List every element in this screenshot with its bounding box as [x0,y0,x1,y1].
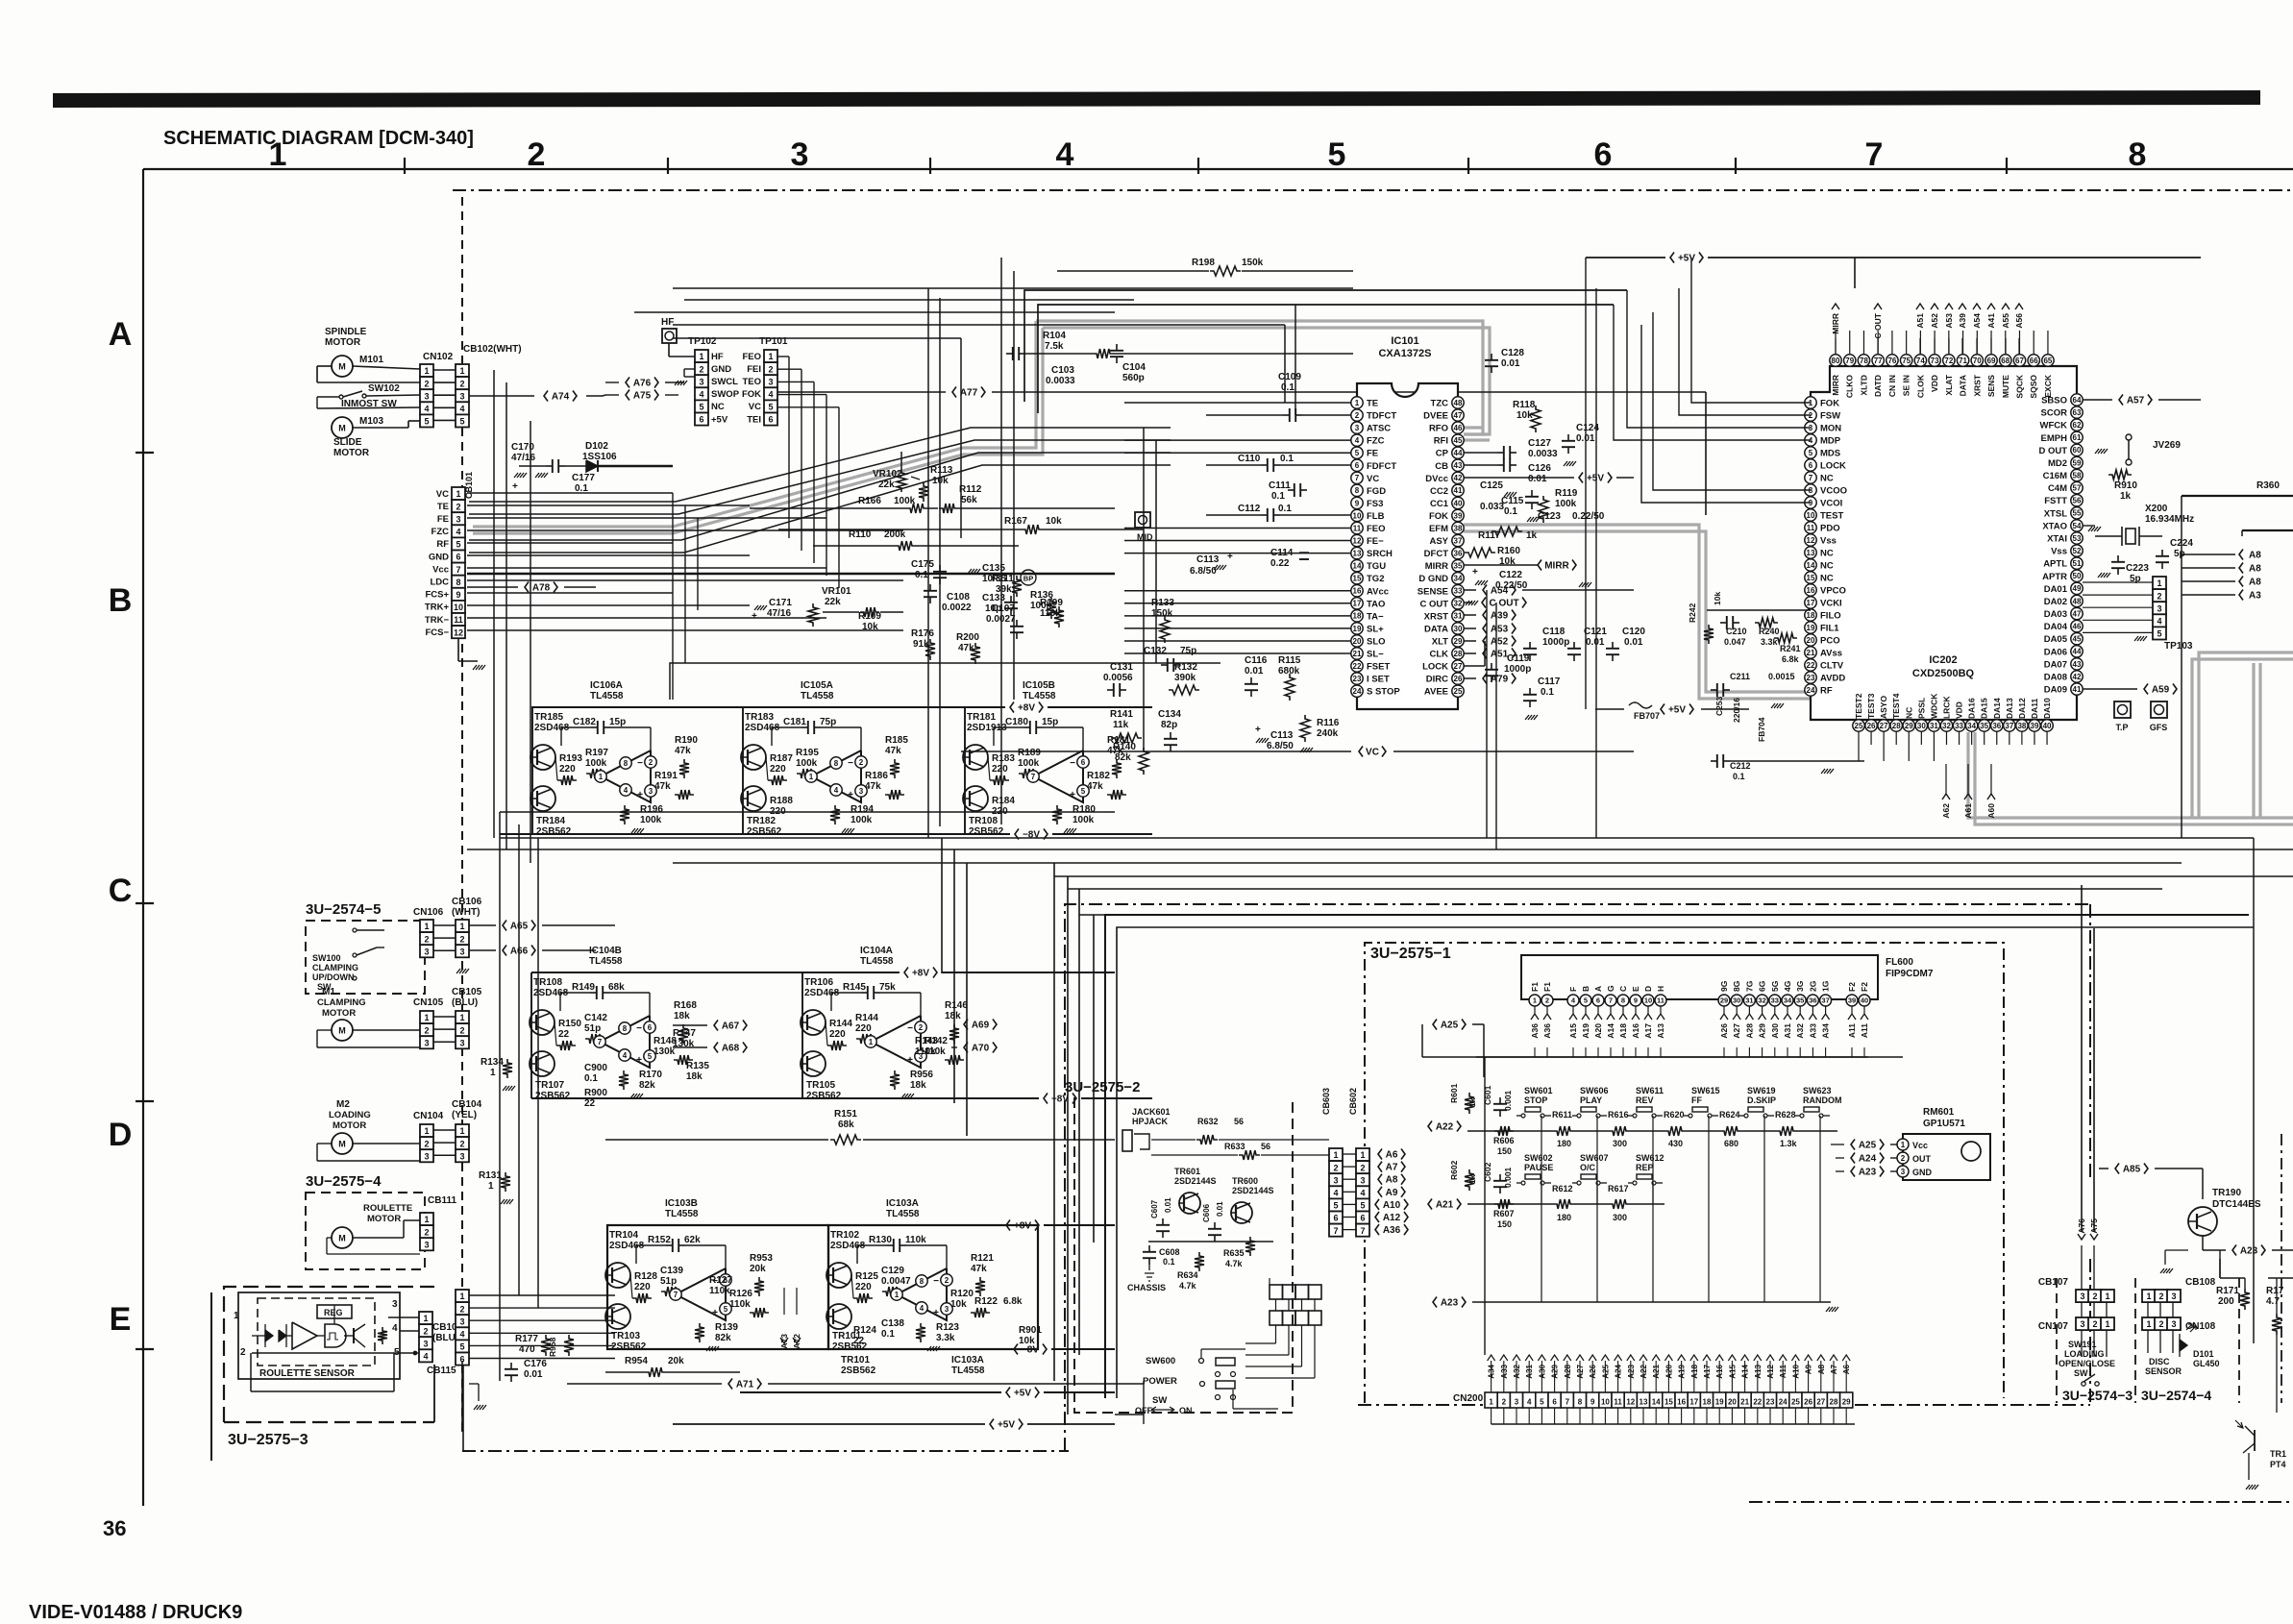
svg-text:1: 1 [1533,997,1537,1005]
wires from IC101 arrows across to IC202 [1486,590,1488,838]
svg-text:SENSOR: SENSOR [2145,1366,2182,1376]
svg-text:1.3k: 1.3k [1780,1139,1798,1148]
svg-text:21: 21 [1740,1398,1749,1407]
arrow A28 under FL600 [1745,1014,1753,1020]
svg-text:TR181: TR181 [967,712,996,723]
svg-text:STOP: STOP [1524,1095,1547,1105]
svg-text:5: 5 [456,540,460,550]
svg-text:−: − [933,1276,939,1287]
IC202 pin 59 MD2 [2071,456,2083,468]
svg-text:A32: A32 [1795,1023,1805,1039]
IC101 pin 17 TAO [1351,598,1363,609]
svg-text:68: 68 [2001,357,2009,365]
arrow A67 [714,1021,718,1031]
svg-text:DVcc: DVcc [1425,474,1448,484]
svg-text:A53: A53 [1944,313,1954,329]
svg-text:+: + [848,790,853,800]
IC202 CXD2500BQ body [1811,366,2077,720]
svg-text:SENSE: SENSE [1418,586,1448,597]
svg-text:10k: 10k [1516,410,1533,421]
svg-text:EMPH: EMPH [2041,433,2068,444]
svg-text:2: 2 [699,364,703,374]
main board dashed left border [461,197,463,1432]
IC202 pin 12 Vss [1805,534,1816,546]
IC202 pin 38 DA12 [2016,720,2028,731]
svg-text:100k: 100k [1018,758,1040,769]
svg-text:6: 6 [1552,1398,1557,1407]
wire box around filter [1707,609,1811,611]
svg-text:36: 36 [1454,549,1463,557]
svg-text:CLTV: CLTV [1820,661,1844,672]
svg-text:REV: REV [1636,1095,1654,1105]
svg-text:4: 4 [456,528,460,537]
svg-text:R144: R144 [855,1013,878,1023]
svg-text:DA12: DA12 [2017,698,2027,719]
+5V rail row E lower [990,1419,994,1430]
svg-text:R632: R632 [1197,1117,1219,1126]
arrow A15 above CN200 [1728,1355,1736,1361]
svg-text:TEST: TEST [1820,511,1843,522]
svg-text:1: 1 [488,1181,494,1192]
svg-text:3: 3 [1360,1175,1365,1185]
svg-text:3: 3 [459,947,464,956]
svg-text:44: 44 [2073,648,2082,656]
transistor TR103 (lower) of IC103B [605,1304,630,1329]
svg-text:DATA: DATA [1959,375,1968,396]
svg-text:4.7: 4.7 [2266,1296,2280,1307]
svg-text:IC105B: IC105B [1023,680,1055,691]
svg-text:+5V: +5V [1668,705,1686,716]
svg-text:2: 2 [1360,1163,1365,1172]
svg-text:C180: C180 [1005,717,1028,727]
svg-text:33: 33 [1771,997,1779,1005]
svg-text:CB108: CB108 [2185,1277,2216,1288]
transistor TR105 (lower) of IC104A [801,1051,826,1076]
svg-text:47k: 47k [865,781,881,792]
svg-text:R910: R910 [2114,480,2137,491]
wire +5V bottom rail [1115,1414,1144,1415]
svg-text:70: 70 [1973,357,1982,365]
wires TP101 pins down bundle [777,356,789,357]
svg-text:M: M [338,1140,346,1149]
svg-text:62: 62 [2073,421,2082,430]
svg-text:SENS: SENS [1986,375,1996,397]
svg-text:0.1: 0.1 [584,1073,598,1084]
svg-text:10: 10 [1644,997,1652,1005]
svg-text:3: 3 [423,1339,428,1348]
arrow A32 under FL600 [1796,1014,1804,1020]
IC202 pin 79 CLKO [1844,355,1856,366]
A23 ground rail [1433,1297,1437,1308]
IC202 pin 16 VPCO [1805,584,1816,596]
svg-text:A56: A56 [2014,313,2024,329]
svg-text:R606: R606 [1493,1136,1515,1145]
svg-text:R635: R635 [1223,1248,1245,1258]
svg-text:2: 2 [459,1139,464,1148]
svg-text:2: 2 [459,1304,464,1314]
svg-text:OUT: OUT [1912,1154,1932,1164]
svg-text:5: 5 [2157,629,2161,639]
svg-text:5: 5 [1540,1398,1544,1407]
svg-text:AVss: AVss [1820,649,1842,659]
svg-text:6: 6 [1809,461,1813,470]
svg-text:+: + [636,1055,642,1066]
svg-text:MOTOR: MOTOR [367,1214,401,1224]
IC202 pin 10 TEST [1805,509,1816,521]
arrow A26 under FL600 [1720,1014,1728,1020]
svg-text:CLAMPING: CLAMPING [312,963,358,972]
svg-text:GFS: GFS [2150,723,2168,732]
left vertical of IC103A [827,1225,829,1349]
svg-text:FEI: FEI [747,364,761,375]
-8V rail row B [1015,829,1019,840]
IC101 pin 7 VC [1351,472,1363,483]
svg-text:29: 29 [1454,637,1463,646]
page frame top line [143,168,2293,170]
svg-text:62k: 62k [684,1235,701,1245]
svg-text:2SD2144S: 2SD2144S [1232,1186,1274,1195]
svg-text:CN102: CN102 [423,352,454,362]
C OUT arrow [1482,598,1486,608]
svg-text:4: 4 [459,405,464,414]
FL600 pin 34 4G [1782,995,1793,1006]
board link connector hatch boxes [1270,1285,1283,1299]
svg-text:A54: A54 [1972,313,1982,329]
A53 arrow [1483,624,1487,634]
svg-text:59: 59 [2073,458,2082,467]
svg-text:680: 680 [1724,1139,1738,1148]
svg-text:C: C [1618,986,1628,992]
arrow A16 above CN200 [1715,1355,1723,1361]
svg-text:0.0022: 0.0022 [942,603,972,613]
svg-text:14: 14 [1353,562,1362,571]
IC202 pin 42 DA08 [2071,671,2083,682]
svg-text:10k: 10k [1046,516,1062,527]
svg-text:45: 45 [1454,436,1463,445]
arrow A19 above CN200 [1678,1355,1686,1361]
IC101 pin 42 DVcc [1452,472,1464,483]
svg-text:IC202: IC202 [1929,654,1957,666]
FL600 pin 8 C [1617,995,1629,1006]
connector CB115 [419,1312,432,1324]
svg-text:2SB562: 2SB562 [535,1091,571,1101]
transistor TR101 (lower) of IC103A [826,1304,851,1329]
svg-text:A18: A18 [1618,1023,1628,1039]
svg-text:A78: A78 [532,583,551,594]
svg-text:200: 200 [2218,1296,2234,1307]
arrow A30 under FL600 [1771,1014,1779,1020]
svg-text:8: 8 [834,759,839,768]
svg-text:DVEE: DVEE [1423,411,1448,422]
arrow A32 above CN200 [1513,1355,1520,1361]
svg-text:1: 1 [2146,1319,2151,1329]
svg-text:41: 41 [2073,685,2082,694]
A8 A8 A8 A3 arrows right edge [2239,550,2243,560]
svg-text:TRK−: TRK− [425,615,450,626]
svg-text:M: M [338,362,346,372]
svg-text:470: 470 [519,1344,535,1355]
svg-text:A24: A24 [1859,1154,1877,1165]
svg-text:VIDE-V01488 / DRUCK9: VIDE-V01488 / DRUCK9 [29,1602,242,1623]
svg-text:A28: A28 [1744,1023,1754,1039]
svg-text:40: 40 [1454,499,1463,507]
svg-text:R112: R112 [959,484,982,495]
svg-text:TR107: TR107 [535,1080,564,1091]
A25 arrow left [1433,1020,1437,1030]
svg-text:12: 12 [1626,1398,1635,1407]
IC202 pin 53 XTAI [2071,532,2083,544]
IC202 pin 18 FILO [1805,609,1816,621]
svg-text:A54: A54 [1491,586,1509,597]
svg-text:29: 29 [1842,1398,1851,1407]
svg-text:26: 26 [1454,675,1463,683]
A39 arrow [1483,610,1487,621]
svg-text:3: 3 [2171,1319,2176,1329]
svg-text:CB107: CB107 [2038,1277,2069,1288]
svg-text:6: 6 [768,415,773,425]
svg-text:C110: C110 [1238,454,1261,464]
svg-text:SE IN: SE IN [1902,375,1911,396]
svg-text:TR106: TR106 [804,977,833,988]
arrow A76 [2078,1234,2085,1240]
svg-text:+: + [1255,725,1261,735]
svg-text:75: 75 [1902,357,1911,365]
IC101 pin 28 CLK [1452,648,1464,659]
svg-text:1: 1 [490,1068,496,1078]
svg-text:A74: A74 [552,392,570,403]
svg-text:R167: R167 [1004,516,1027,527]
svg-text:DA02: DA02 [2044,597,2067,607]
svg-text:4: 4 [424,405,429,414]
IC202 pin 35 DA15 [1979,720,1990,731]
svg-text:R241: R241 [1780,644,1801,653]
arrow A75 [626,390,629,401]
svg-text:36: 36 [103,1516,126,1540]
svg-text:LOADING: LOADING [2064,1349,2105,1359]
svg-text:R633: R633 [1224,1142,1245,1151]
IC202 pin 71 DATA [1957,355,1968,366]
svg-text:5: 5 [768,403,773,412]
arrow A29 under FL600 [1759,1014,1766,1020]
svg-text:A15: A15 [1568,1023,1578,1039]
svg-text:35: 35 [1454,562,1463,571]
arrow A16 under FL600 [1632,1014,1640,1020]
svg-text:38: 38 [1454,524,1463,532]
thick Vcc wire [467,573,1115,575]
arrow A13 under FL600 [1657,1014,1664,1020]
svg-text:(BLU): (BLU) [452,997,478,1008]
svg-text:3U−2574−4: 3U−2574−4 [2141,1388,2211,1403]
svg-text:1: 1 [424,1126,429,1136]
svg-text:0.01: 0.01 [1216,1201,1224,1217]
svg-text:SW601: SW601 [1524,1086,1553,1095]
svg-text:CB: CB [1435,461,1448,472]
svg-text:46: 46 [1454,424,1463,432]
svg-text:1: 1 [423,1314,428,1323]
svg-text:6G: 6G [1758,980,1767,992]
svg-text:C210: C210 [1726,627,1747,636]
svg-text:19: 19 [1715,1398,1724,1407]
svg-text:3: 3 [459,1151,464,1161]
svg-text:CC2: CC2 [1430,486,1448,497]
svg-text:0.033: 0.033 [1480,502,1504,512]
IC202 pin 73 VDD [1929,355,1940,366]
svg-text:9: 9 [1590,1398,1595,1407]
svg-text:LOCK: LOCK [1820,461,1846,472]
IC101 pin 46 RFO [1452,422,1464,433]
svg-text:0.0015: 0.0015 [1768,672,1795,681]
IC202 pin 27 ASYO [1878,720,1889,731]
svg-text:A51: A51 [1915,313,1925,329]
svg-text:CC1: CC1 [1430,499,1449,509]
svg-text:C142: C142 [584,1013,607,1023]
svg-text:A6: A6 [1386,1150,1398,1161]
svg-text:TE: TE [1367,399,1378,409]
svg-text:IC103B: IC103B [665,1198,698,1209]
arrow A27 under FL600 [1733,1014,1740,1020]
svg-text:37: 37 [1821,997,1829,1005]
IC101 pin 34 D GND [1452,573,1464,584]
svg-text:X200: X200 [2145,504,2168,514]
RM601 pin 2 OUT [1897,1152,1909,1164]
svg-text:PAUSE: PAUSE [1524,1163,1553,1172]
svg-text:XLT: XLT [1432,636,1448,647]
svg-text:56k: 56k [961,495,977,505]
svg-text:67: 67 [2015,357,2024,365]
FL600 pin 4 F [1567,995,1579,1006]
svg-text:R197: R197 [585,748,608,758]
svg-text:R189: R189 [1018,748,1041,758]
svg-text:F1: F1 [1542,982,1552,992]
svg-text:4: 4 [423,1352,428,1362]
svg-text:DFCT: DFCT [1424,549,1449,559]
svg-text:TR101: TR101 [841,1355,870,1366]
svg-text:A67: A67 [722,1021,740,1032]
IC202 pin 74 CLOK [1914,355,1926,366]
svg-text:IC104A: IC104A [860,946,893,956]
svg-text:2: 2 [649,758,653,767]
FL600 pin 30 8G [1731,995,1742,1006]
svg-text:0.01: 0.01 [1245,666,1264,677]
svg-text:A22: A22 [1436,1122,1454,1133]
svg-text:R607: R607 [1493,1209,1515,1218]
svg-text:R634: R634 [1177,1270,1198,1280]
arrow A25 above CN200 [1601,1355,1609,1361]
svg-text:LOCK: LOCK [1422,662,1448,673]
svg-text:8: 8 [1355,486,1360,495]
svg-text:DA07: DA07 [2044,659,2067,670]
svg-text:7: 7 [456,565,460,575]
svg-text:R617: R617 [1608,1184,1629,1193]
svg-text:R956: R956 [910,1070,933,1080]
svg-text:R136: R136 [1030,590,1053,601]
op-amp IC104B [600,1016,650,1068]
svg-text:R124: R124 [853,1325,876,1336]
svg-text:4: 4 [1355,436,1360,445]
arrow A15 under FL600 [1569,1014,1577,1020]
svg-text:CLKO: CLKO [1845,375,1855,398]
svg-text:R125: R125 [855,1271,878,1282]
svg-text:+: + [637,790,643,800]
IC101 pin 26 DIRC [1452,673,1464,684]
svg-text:R141: R141 [1110,709,1133,720]
IC202 pin 77 DATD [1872,355,1884,366]
svg-text:55: 55 [2073,509,2082,518]
svg-text:R143: R143 [915,1036,938,1046]
svg-text:TL4558: TL4558 [860,956,894,967]
svg-text:C132: C132 [1144,646,1167,656]
svg-text:50: 50 [2073,572,2082,580]
svg-text:43: 43 [2073,660,2082,669]
IC101 pin 10 FLB [1351,509,1363,521]
svg-text:NC: NC [711,402,725,412]
arrow A29 above CN200 [1551,1355,1559,1361]
svg-text:TEST2: TEST2 [1854,693,1863,719]
svg-text:32: 32 [1454,600,1463,608]
svg-text:A: A [1593,986,1603,992]
svg-text:47k: 47k [958,643,974,653]
svg-text:8: 8 [2129,136,2147,173]
svg-text:A27: A27 [1732,1023,1741,1039]
svg-text:C111: C111 [1269,480,1291,491]
svg-text:FZC: FZC [431,527,450,537]
svg-text:TL4558: TL4558 [801,691,834,701]
svg-text:A72: A72 [792,1334,801,1349]
svg-text:9: 9 [1634,997,1638,1005]
svg-text:TR601: TR601 [1174,1167,1200,1176]
svg-text:6: 6 [699,415,703,425]
svg-text:4: 4 [699,390,703,400]
svg-text:XRST: XRST [1972,374,1982,396]
svg-text:R195: R195 [796,748,819,758]
arrow A11 above CN200 [1779,1355,1787,1361]
svg-text:R180: R180 [1073,804,1096,815]
FL600 pin 35 3G [1794,995,1806,1006]
svg-text:18k: 18k [910,1080,926,1091]
svg-text:ON: ON [1179,1406,1193,1415]
svg-text:2: 2 [240,1347,246,1358]
svg-text:CN104: CN104 [413,1111,444,1121]
svg-text:I SET: I SET [1367,675,1390,685]
svg-text:0.1: 0.1 [881,1329,895,1340]
wires into IC101 left pins [1124,402,1351,404]
svg-text:SL−: SL− [1367,650,1384,660]
svg-text:R119: R119 [1555,488,1578,499]
svg-text:C128: C128 [1501,348,1524,358]
svg-text:68k: 68k [838,1120,854,1130]
svg-text:3: 3 [1355,424,1360,432]
svg-text:C16M: C16M [2043,471,2067,481]
svg-text:56: 56 [1234,1117,1244,1126]
A79 arrow [1483,674,1487,684]
svg-text:1: 1 [2157,578,2161,588]
svg-text:6.8/50: 6.8/50 [1190,566,1217,577]
+8V rail row B [1010,702,1014,713]
svg-text:R612: R612 [1552,1184,1573,1193]
svg-text:C139: C139 [660,1266,683,1276]
IC101 pin 39 FOK [1452,509,1464,521]
IC101 pin 3 ATSC [1351,422,1363,433]
svg-text:R166: R166 [858,496,881,506]
svg-text:34: 34 [1784,997,1792,1005]
svg-text:1: 1 [1333,1150,1338,1160]
svg-text:150: 150 [1497,1219,1512,1229]
svg-text:R602: R602 [1449,1160,1459,1180]
arrow A19 under FL600 [1582,1014,1590,1020]
svg-text:R127: R127 [709,1275,732,1286]
svg-text:R183: R183 [992,753,1015,764]
svg-text:R149: R149 [572,982,595,993]
